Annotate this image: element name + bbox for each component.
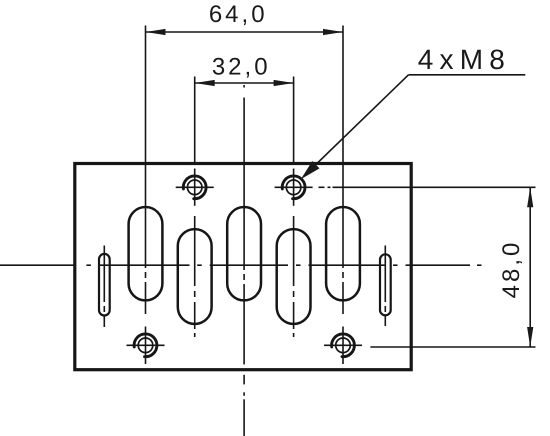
slot 3: [227, 207, 261, 300]
plate outline: [75, 164, 411, 370]
slot 1: [129, 207, 163, 300]
slot 1 centerline: [145, 164, 147, 315]
vertical centerline: [243, 85, 245, 436]
threaded hole top-left M8: [176, 169, 214, 206]
side slot left: [99, 254, 110, 316]
dimension 48,0: [319, 187, 536, 347]
side slot left centerline: [103, 246, 105, 328]
svg-text:4 x M 8: 4 x M 8: [418, 44, 504, 75]
slot 5: [326, 207, 360, 300]
threaded hole bottom-left M8: [127, 327, 165, 365]
slot 2: [178, 229, 212, 324]
svg-text:48,0: 48,0: [498, 240, 525, 299]
side slot right centerline: [384, 246, 386, 327]
svg-text:64,0: 64,0: [209, 1, 268, 28]
leader 4 x M 8: [301, 75, 526, 180]
slot 2 centerline: [194, 216, 196, 337]
svg-text:32,0: 32,0: [212, 54, 271, 81]
side slot right: [380, 254, 391, 315]
threaded hole top-right M8: [275, 169, 313, 206]
slot 5 centerline: [342, 164, 344, 315]
dimension 32,0: [195, 77, 294, 164]
threaded hole bottom-right M8: [324, 327, 362, 365]
dimension 64,0: [146, 26, 344, 164]
slot 4: [277, 229, 311, 324]
slot 4 centerline: [293, 216, 295, 337]
horizontal centerline: [0, 264, 482, 266]
